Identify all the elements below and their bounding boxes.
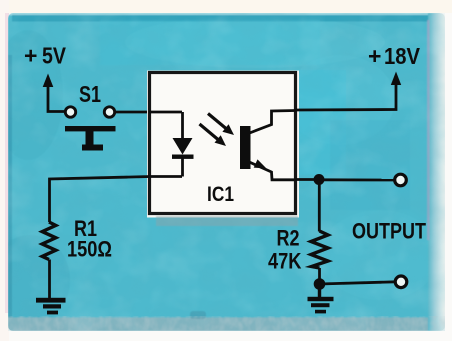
switch S1 xyxy=(65,107,116,151)
wire: collector to +18V xyxy=(296,83,396,110)
svg-text:S1: S1 xyxy=(79,81,101,107)
ground (below R1) xyxy=(36,298,66,315)
shadow under IC1 box (scan artifact) xyxy=(156,216,298,226)
node: emitter/R2/output junction xyxy=(314,174,325,185)
node: R2 bottom junction xyxy=(314,278,326,290)
terminal: OUTPUT bottom xyxy=(395,276,407,288)
svg-text:150Ω: 150Ω xyxy=(67,237,112,262)
svg-text:18V: 18V xyxy=(384,43,421,69)
svg-text:47K: 47K xyxy=(268,249,302,274)
svg-text:+: + xyxy=(368,43,381,69)
wire: junction to OUTPUT terminal 2 xyxy=(319,282,396,284)
resistor R1 xyxy=(42,222,56,299)
terminal: OUTPUT top xyxy=(395,174,407,186)
svg-text:5V: 5V xyxy=(42,43,67,69)
wire: emitter to output node xyxy=(296,178,319,181)
LED D inside IC1: anode stub, diode, cathode stub xyxy=(149,112,194,177)
+18V supply arrow head xyxy=(391,72,401,86)
resistor R2 xyxy=(311,180,328,285)
wire: junction to OUTPUT terminal 1 xyxy=(319,178,394,181)
svg-text:R2: R2 xyxy=(277,226,300,251)
optocoupler IC1 package outline xyxy=(147,71,299,218)
svg-text:OUTPUT: OUTPUT xyxy=(352,219,426,244)
phototransistor Q inside IC1 xyxy=(240,111,296,180)
wire: LED cathode to R1 xyxy=(50,177,152,223)
ground (below R2) xyxy=(308,284,334,313)
wire: S1 to IC1 LED anode xyxy=(114,111,152,114)
svg-text:IC1: IC1 xyxy=(207,182,234,206)
svg-text:+: + xyxy=(24,43,37,69)
+5V supply arrow xyxy=(43,74,66,112)
light coupling arrows xyxy=(200,114,235,147)
